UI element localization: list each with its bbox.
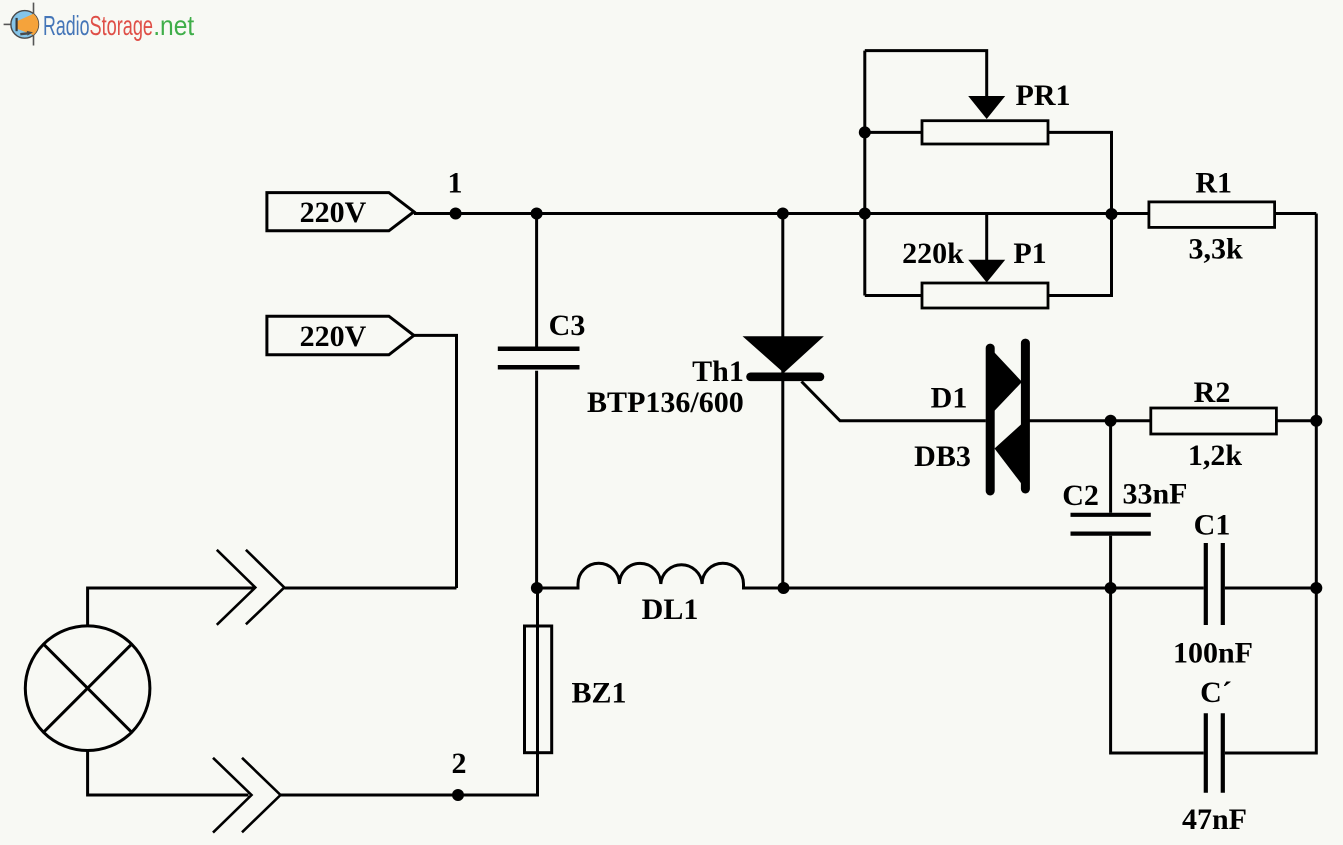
wire bottom rail right of C1 [1225,587,1316,590]
potentiometer PR1 wiper bracket [865,51,987,97]
capacitor C3 bottom lead [535,371,538,588]
svg-text:220k: 220k [902,237,964,270]
capacitor C3 plates [498,349,580,368]
junction left branch top rail [859,208,871,220]
svg-text:220V: 220V [300,320,367,353]
capacitor C-prime plates [1206,713,1223,792]
svg-text:DB3: DB3 [914,440,971,473]
svg-text:1,2k: 1,2k [1188,439,1243,472]
capacitor C1 plates [1206,543,1223,625]
svg-text:47nF: 47nF [1182,803,1247,836]
potentiometer P1 wiper arrow [968,260,1005,283]
lamp bulb circle [25,626,150,751]
svg-text:C´: C´ [1200,676,1232,709]
junction Th1 top [777,208,789,220]
capacitor C2 bottom lead [1109,536,1112,588]
svg-text:100nF: 100nF [1173,637,1253,670]
svg-text:Storage: Storage [90,10,154,41]
capacitor C-prime left loop [1111,588,1204,753]
svg-text:PR1: PR1 [1016,79,1071,112]
RadioStorage logo [4,3,195,46]
inductor DL1 [537,563,784,588]
wire connector to corner [284,587,456,590]
wire lamp top to connector [88,588,254,626]
fuse BZ1 body [525,626,552,753]
net flag 220V upper [267,193,414,231]
connector lower chevron 1 [213,758,252,833]
potentiometer PR1 wiper arrow [968,96,1005,119]
junction gate R2 C2 [1105,415,1117,427]
junction PR1 left [859,126,871,138]
junction C3 top [531,208,543,220]
svg-text:R2: R2 [1194,376,1231,409]
diac D1 lower triangle [995,421,1026,490]
svg-text:33nF: 33nF [1122,478,1187,511]
svg-text:.net: .net [153,10,194,41]
wire P1 right lead [1048,214,1112,296]
diac D1 left bar [986,348,995,491]
svg-text:1: 1 [448,167,463,200]
lamp cross line 2 [44,644,132,732]
potentiometer P1 wiper lead [985,214,988,261]
svg-text:C2: C2 [1062,479,1099,512]
junction node 2 [452,789,464,801]
wire P1 left lead [865,294,922,297]
wire PR1 left lead [865,131,922,134]
resistor R2 body [1151,408,1277,434]
wire bottom rail left of C1 [784,587,1204,590]
wire lamp bottom to connector [88,751,249,796]
capacitor C2 top lead [1109,421,1112,513]
svg-text:3,3k: 3,3k [1189,233,1244,266]
net flag 220V lower [267,316,414,355]
wire left branch vertical [863,51,866,296]
resistor R2 right lead [1276,419,1316,422]
junction R2 right [1310,415,1322,427]
svg-text:C1: C1 [1194,509,1231,542]
diac D1 upper triangle [990,348,1022,416]
svg-text:R1: R1 [1195,167,1232,200]
wire top rail [414,212,1149,215]
svg-text:2: 2 [452,747,467,780]
svg-text:BZ1: BZ1 [571,677,626,710]
svg-text:P1: P1 [1013,237,1046,270]
wire flag2 to corner down [414,335,457,588]
capacitor C2 plates [1071,515,1151,534]
triac Th1 gate wire [802,382,986,421]
junction bottom right [1310,582,1322,594]
capacitor C3 top lead [535,214,538,348]
svg-text:BTP136/600: BTP136/600 [587,386,744,419]
junction Th1 bottom [778,582,790,594]
svg-text:D1: D1 [931,382,968,415]
svg-text:C3: C3 [549,309,586,342]
svg-text:Th1: Th1 [692,355,744,388]
resistor R2 left lead [1111,419,1151,422]
wire diac to node [1029,419,1111,422]
lamp cross line 1 [44,644,132,732]
junction DL1 left [531,582,543,594]
junction node 1 [450,208,462,220]
wire R1 right lead [1275,212,1317,215]
diac D1 right bar [1021,343,1030,489]
wire PR1 right lead [1048,132,1112,213]
triac Th1 triangle [747,338,821,371]
svg-text:220V: 220V [300,196,367,229]
junction R1 left [1106,208,1118,220]
wire right rail [1315,214,1318,589]
connector upper chevron 2 [246,550,284,625]
wire connector to BZ1 corner [281,588,538,795]
connector lower chevron 2 [242,758,281,833]
triac Th1 vertical lead [781,214,784,589]
resistor R1 body [1149,202,1275,228]
svg-text:DL1: DL1 [642,593,699,626]
connector upper chevron 1 [217,550,256,625]
svg-text:Radio: Radio [43,10,90,41]
triac Th1 cathode bar [751,372,821,381]
potentiometer P1 body [922,283,1048,308]
junction C2 bottom [1105,582,1117,594]
potentiometer PR1 body [922,121,1048,144]
capacitor C-prime right loop [1225,588,1316,753]
